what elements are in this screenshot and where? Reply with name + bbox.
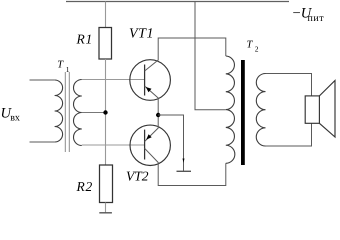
ground emitter circuit [177,170,192,172]
transformer T2 secondary winding [256,74,265,147]
speaker cone [319,81,335,138]
transformer T2 primary winding [226,56,235,163]
transistor VT1 circle [130,60,171,101]
wire VT2 collector to T2 primary bottom [145,148,226,185]
wire VT1 collector to T2 primary top [145,38,226,71]
transistor VT1 emitter arrow (PNP) [146,87,152,92]
svg-text:вх: вх [10,113,20,124]
transformer T1 core [65,72,69,152]
svg-text:R1: R1 [76,32,94,47]
wire T2 secondary bottom to speaker [266,123,312,146]
resistor R2 [100,165,113,203]
svg-text:R2: R2 [76,179,94,194]
wire emitter node to ground [158,115,183,171]
ground arrow tick [183,159,185,163]
wire T1 center tap to divider [82,112,106,114]
node bias junction dot [103,110,107,114]
wire VT1 emitter down to common node [145,86,159,115]
wire VT1 base from T1 secondary top [82,79,145,81]
svg-text:VT2: VT2 [126,169,149,184]
node emitter junction dot [156,113,160,117]
svg-text:VT1: VT1 [129,26,154,41]
wire R1 bottom to R2 top (bias divider line) [105,59,107,165]
svg-text:пит: пит [308,13,325,24]
svg-text:T: T [247,39,254,50]
transistor VT2 base bar [144,130,146,160]
wire VT2 emitter up to common node [145,115,159,142]
transistor VT2 circle [130,125,170,165]
wire input stub bottom [30,141,55,143]
ground below R2 [99,212,112,214]
wire R1 top to rail [105,2,107,28]
svg-text:1: 1 [66,65,70,74]
svg-text:2: 2 [255,44,259,53]
transistor VT2 emitter arrow (PNP) [146,134,152,139]
svg-text:T: T [57,60,64,71]
transformer T1 primary winding [55,80,63,142]
resistor R1 [99,28,112,60]
transistor VT1 base bar [144,65,146,96]
wire top supply rail [66,1,289,3]
transformer T1 secondary winding [74,80,82,146]
wire VT2 base from T1 secondary bottom [82,144,145,146]
wire T2 secondary top to speaker [266,74,312,96]
wire R2 bottom to ground [105,203,107,213]
wire input stub top [30,79,55,81]
speaker magnet rectangle [305,96,319,123]
transformer T2 core [241,60,245,165]
wire supply rail to T2 center tap [195,2,226,110]
